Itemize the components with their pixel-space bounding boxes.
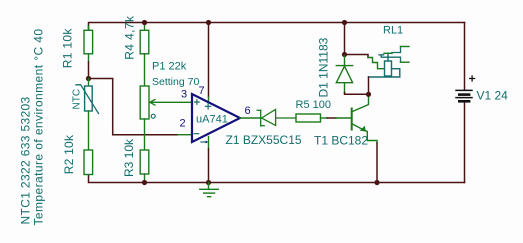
svg-text:NTC1 2322 633 53203: NTC1 2322 633 53203 [19,96,33,224]
resistor R4 [140,23,149,87]
diode D1 [336,55,352,93]
svg-text:Temperature of environment °C: Temperature of environment °C 40 [32,29,46,226]
relay RL1 contact [379,47,409,63]
label P1 22k [152,61,187,73]
svg-text:7: 7 [199,85,205,97]
node emitter bottom rail [374,180,379,185]
label R1 10k [61,28,75,69]
label RL1 [383,24,403,36]
op-amp U1 uA741 [192,94,240,143]
svg-text:R5 100: R5 100 [296,99,331,111]
label D1 1N1183 [317,37,331,97]
label R5 100 [296,99,331,111]
wire emitter to bottom rail [376,143,378,183]
node top rail D1 [342,20,347,25]
transistor T1 BC182 [352,95,377,144]
resistor R2 [84,150,93,175]
svg-text:3: 3 [181,89,187,101]
resistor R1 [84,26,93,62]
svg-text:uA741: uA741 [196,114,228,126]
battery V1 [456,76,475,101]
wire op-amp output pin 6 [240,117,261,119]
label R3 10k [122,138,136,177]
svg-text:2: 2 [180,118,186,130]
svg-text:V1 24: V1 24 [477,89,509,103]
wire top rail to D1 [344,23,346,55]
label R4 4,7k [123,15,137,60]
wire relay coil feed [345,55,385,69]
svg-text:P1 22k: P1 22k [152,61,187,73]
resistor R3 [140,150,149,183]
node top rail op-amp supply [206,20,211,25]
wire right rail lower [464,103,466,183]
label NTC [72,89,83,110]
pin 3 [181,89,187,101]
wire op-amp V- to ground [208,137,210,183]
wire right rail upper [464,23,466,90]
wire top rail [89,23,465,31]
wire R1 to NTC node [88,62,90,79]
svg-text:NTC: NTC [72,89,83,110]
svg-text:Setting 70: Setting 70 [152,76,199,88]
svg-text:Z1 BZX55C15: Z1 BZX55C15 [226,133,302,147]
node NTC top junction [86,76,91,81]
resistor R5 [296,114,327,122]
potentiometer P1 [140,86,192,150]
pin 2 [180,118,186,130]
label Temperature of environment C 40 [32,29,46,226]
svg-text:D1 1N1183: D1 1N1183 [317,37,331,97]
svg-text:6: 6 [245,105,251,117]
svg-text:R3 10k: R3 10k [122,138,136,177]
wire bottom rail [89,175,465,183]
wire relay coil return [369,69,400,95]
label uA741 [196,114,228,126]
label T1 BC182 [314,134,368,148]
svg-text:R1 10k: R1 10k [61,28,75,69]
label V1 24 [477,89,509,103]
zener diode Z1 [257,109,296,126]
node D1 cathode junction [342,52,347,57]
node R3 bottom rail [142,180,147,185]
thermistor NTC [76,79,99,151]
node collector junction [366,92,371,97]
label R2 10k [62,134,76,174]
label Z1 BZX55C15 [226,133,302,147]
ground [200,183,219,197]
wire pin2 lead green [178,134,192,136]
wire op-amp V+ [208,23,210,103]
wire D1 anode to collector node [345,93,369,95]
svg-text:R4 4,7k: R4 4,7k [123,15,137,60]
svg-text:RL1: RL1 [383,24,403,36]
pin 6 [245,105,251,117]
node ground junction [206,180,211,185]
label Setting 70 [152,76,199,88]
svg-text:T1 BC182: T1 BC182 [314,134,368,148]
svg-text:R2 10k: R2 10k [62,134,76,174]
wire R5 to base [327,117,351,119]
wire junction to inverting input (right then down) [89,79,179,135]
relay RL1 coil [385,53,392,76]
label NTC1 2322 633 53203 [19,96,33,224]
node top rail R4 [142,20,147,25]
pin 7 [199,85,205,97]
